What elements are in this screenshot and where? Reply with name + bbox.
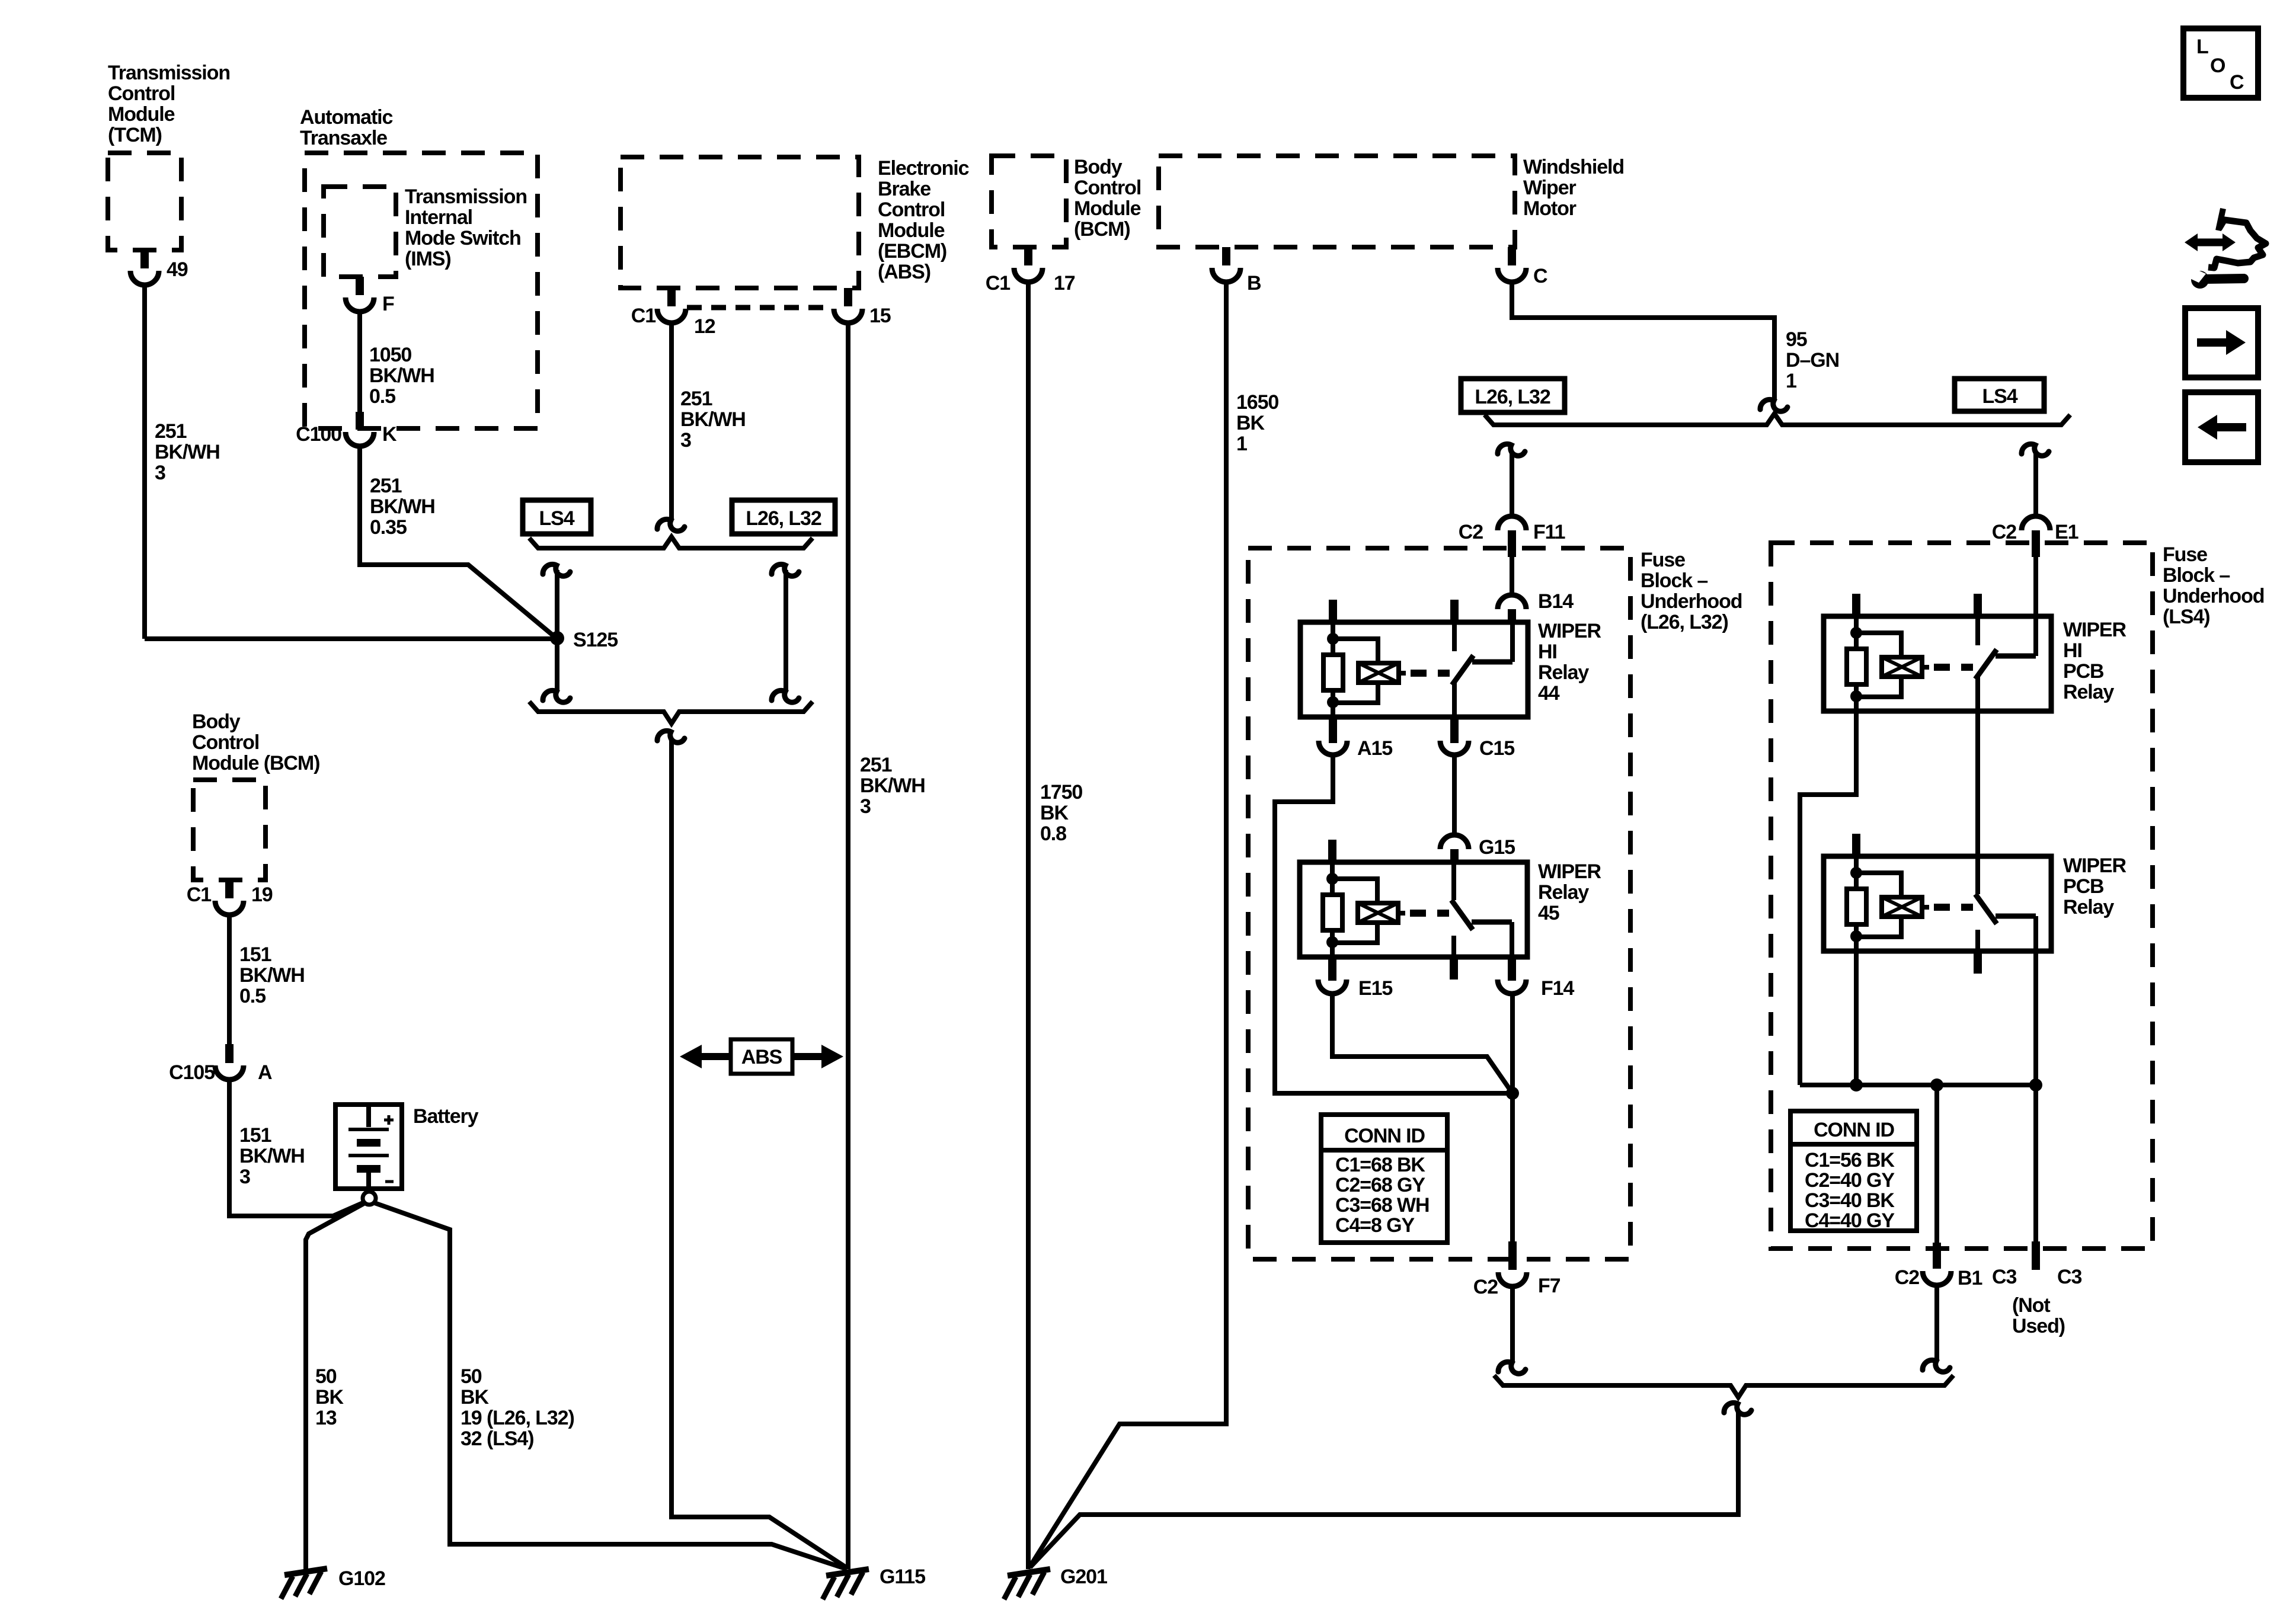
relay NC stub (bottom) [1975,930,1980,951]
svg-text:C4=40 GY: C4=40 GY [1805,1209,1895,1232]
L26,L32 branch curl (bottom) [772,690,799,702]
svg-text:BK: BK [461,1386,489,1409]
wiper relay 45 [1300,862,1527,957]
svg-text:C105: C105 [169,1061,215,1084]
windshield wiper motor dashed box [1159,156,1515,247]
wire E15 to junction [1332,994,1512,1093]
svg-text:Control: Control [878,199,945,221]
option brace LS4 / L26,L32 (top) [529,537,813,548]
svg-text:C1: C1 [986,272,1010,295]
option brace L26,L32 / LS4 [1485,414,2070,425]
svg-text:G15: G15 [1479,836,1515,859]
relay coil feed stub [1852,834,1860,856]
svg-text:LS4: LS4 [1982,385,2017,408]
L26,L32 branch curl [1498,444,1525,456]
L26,L32 branch curl (top) [772,564,799,576]
svg-text:Module: Module [1074,197,1141,220]
svg-text:B1: B1 [1958,1267,1982,1289]
svg-text:C4=8 GY: C4=8 GY [1335,1214,1415,1237]
svg-text:13: 13 [315,1407,337,1429]
wire E1 into wiper hi pcb relay [2033,557,2038,656]
wire F11 to B14 [1510,557,1514,596]
curl above closing brace right [1923,1360,1950,1372]
relay switch arm [1975,894,1997,924]
wiper hi relay 44 [1300,622,1528,717]
relay coil feed stub [1852,594,1860,616]
wire pcb coil return [1854,951,1859,1085]
wire 50 BK 13 to G102 [306,1204,364,1570]
right arrow box icon [2185,308,2258,377]
L26,L32 branch wire [784,570,788,690]
wire hi pcb common to pcb relay [1975,679,1980,894]
svg-text:Mode Switch: Mode Switch [405,227,521,249]
wire F7 down [1510,1286,1515,1362]
relay resistor [1854,633,1859,649]
svg-text:251: 251 [155,420,187,443]
svg-text:0.5: 0.5 [239,985,266,1007]
svg-text:C3=68 WH: C3=68 WH [1335,1194,1429,1217]
svg-text:1650: 1650 [1236,391,1278,414]
svg-text:C2: C2 [1459,521,1483,543]
svg-text:PCB: PCB [2063,875,2104,898]
svg-text:15: 15 [869,305,891,327]
svg-text:0.35: 0.35 [370,516,407,539]
connector C1 pin 15 at EBCM [844,288,852,306]
svg-text:BK/WH: BK/WH [680,408,746,431]
relay coil [1332,879,1377,903]
connector C15 [1450,717,1459,743]
wire to fuse block F11 [1510,452,1514,516]
svg-text:Used): Used) [2012,1315,2065,1337]
svg-text:BK/WH: BK/WH [239,1145,305,1167]
battery minus mark [385,1180,394,1183]
svg-text:(ABS): (ABS) [878,261,930,283]
svg-text:C2: C2 [1895,1266,1919,1289]
svg-text:1: 1 [1786,370,1796,392]
svg-text:Relay: Relay [1538,881,1589,904]
relay resistor [1330,879,1335,895]
wire from TCM to splice S125 [145,636,557,641]
svg-text:C2=68 GY: C2=68 GY [1335,1174,1425,1196]
wire from brace to G201 [1030,1411,1738,1567]
svg-text:Control: Control [1074,177,1141,199]
relay common from top [1975,856,1980,894]
ground G102 [284,1569,327,1575]
fuse block underhood LS4 dashed box [1771,543,2153,1249]
battery plus mark [384,1119,394,1122]
svg-text:F7: F7 [1538,1275,1560,1297]
LS4 branch curl right [2022,444,2049,456]
wire B1 down [1934,1285,1939,1361]
connector 49 at TCM [140,250,149,268]
svg-text:C2: C2 [1473,1276,1498,1298]
svg-text:K: K [382,423,397,446]
connector G15 [1440,835,1469,849]
svg-text:Control: Control [192,731,259,754]
battery [335,1105,402,1189]
curl below closing brace output [1724,1403,1751,1414]
wire 151 BK/WH 0.5 [227,915,232,1044]
relay coil-switch dashed link [1934,664,1973,671]
fuse block underhood L26,L32 dashed box [1248,548,1630,1259]
svg-text:Automatic: Automatic [300,106,393,129]
svg-text:(LS4): (LS4) [2163,606,2210,628]
connector E15 [1328,957,1336,981]
svg-text:0.8: 0.8 [1040,822,1066,845]
svg-text:Block –: Block – [2163,564,2230,587]
svg-text:WIPER: WIPER [1538,620,1601,642]
junction dot F14/E15/A15 [1506,1087,1519,1100]
svg-text:Fuse: Fuse [1641,549,1685,571]
connector C2 F7 [1508,1241,1517,1270]
svg-text:BK/WH: BK/WH [370,495,435,518]
wiper hi pcb relay [1824,616,2051,711]
automatic transaxle dashed box [305,153,538,428]
svg-text:44: 44 [1538,682,1560,705]
relay coil-switch dashed link [1934,904,1973,911]
svg-text:BK/WH: BK/WH [155,441,220,463]
svg-text:CONN ID: CONN ID [1344,1125,1425,1147]
svg-text:C: C [2230,71,2244,94]
svg-text:C1=56 BK: C1=56 BK [1805,1149,1895,1172]
wire 1050 BK/WH 0.5 [357,312,362,412]
svg-text:L: L [2196,36,2208,58]
ground G201 [1008,1569,1050,1576]
svg-text:G201: G201 [1060,1566,1107,1588]
wire 251 BK/WH 3 from EBCM pin 12 [669,323,674,519]
svg-text:C2=40 GY: C2=40 GY [1805,1169,1895,1192]
svg-text:E15: E15 [1358,977,1392,1000]
svg-text:C2: C2 [1992,521,2016,543]
svg-text:Transmission: Transmission [108,62,230,84]
relay coil [1856,633,1901,657]
wire 95 D-GN 1 [1512,282,1774,399]
relay coil [1333,639,1378,663]
relay switch contact [1996,654,2036,659]
CONN ID table LS4 [1790,1111,1917,1231]
svg-text:E1: E1 [2055,521,2078,543]
svg-text:1050: 1050 [369,344,411,366]
splice S125 [550,631,564,645]
svg-text:A: A [258,1061,272,1084]
relay common from top [1451,862,1456,900]
svg-text:Transaxle: Transaxle [300,127,387,149]
wiper pcb relay [1824,856,2051,951]
relay coil [1856,873,1901,897]
svg-text:95: 95 [1786,328,1807,351]
wire B1 drop [1934,1085,1939,1243]
connector C1 pin 17 at BCM [1024,247,1032,265]
svg-text:Module: Module [878,219,945,242]
svg-text:C3=40 BK: C3=40 BK [1805,1189,1895,1212]
relay common wire [1975,677,1980,711]
svg-text:Body: Body [192,710,241,733]
svg-text:G102: G102 [338,1567,385,1590]
relay coil wire [1331,622,1335,639]
svg-text:WIPER: WIPER [2063,619,2126,641]
svg-text:C3: C3 [2057,1266,2081,1288]
connector C at wiper motor [1508,247,1516,265]
svg-text:251: 251 [860,754,892,776]
svg-text:50: 50 [461,1365,482,1388]
svg-text:3: 3 [860,795,871,818]
svg-text:1750: 1750 [1040,781,1082,804]
svg-text:HI: HI [1538,641,1557,663]
wire 50 BK to G115 [375,1203,847,1569]
vehicle communication icon [2194,239,2226,247]
svg-text:(IMS): (IMS) [405,248,451,270]
svg-text:BK: BK [1236,412,1265,434]
svg-text:S125: S125 [573,629,618,651]
wire 251 BK/WH 3 from TCM pin 49 [142,285,147,639]
svg-text:C100: C100 [296,423,341,446]
svg-text:Wiper: Wiper [1523,177,1576,199]
svg-text:Battery: Battery [413,1105,479,1128]
svg-text:F: F [382,293,394,315]
wire C3 stub (not used) [2033,1085,2038,1241]
relay coil-switch dashed link [1411,670,1450,677]
TCM dashed box [108,153,181,250]
svg-text:19: 19 [251,884,273,906]
LS4 option box [523,500,591,534]
svg-text:151: 151 [239,1124,271,1147]
svg-text:D–GN: D–GN [1786,349,1839,372]
svg-text:BK: BK [1040,802,1069,824]
option brace close (bottom) [529,702,813,724]
svg-text:3: 3 [239,1166,250,1188]
relay coil feed stub [1328,840,1336,862]
svg-text:Relay: Relay [2063,896,2114,918]
svg-text:C: C [1533,265,1547,287]
relay coil wire [1854,616,1859,633]
svg-text:151: 151 [239,943,271,966]
ABS continuation symbol [731,1039,792,1074]
CONN ID table L26,L32 [1321,1115,1447,1243]
svg-text:3: 3 [680,429,691,452]
wire to fuse block E1 [2033,452,2038,516]
svg-text:BK/WH: BK/WH [860,774,925,797]
svg-text:Motor: Motor [1523,197,1576,220]
connector F at IMS [356,277,364,295]
connector C2 B1 [1933,1243,1941,1269]
wire pcb contact to junction [2033,916,2038,1085]
svg-text:O: O [2210,55,2225,77]
left arrow box icon [2185,392,2258,462]
junction bus in LS4 fuse block [1800,1083,2036,1087]
svg-text:(TCM): (TCM) [108,124,162,146]
svg-text:Brake: Brake [878,178,930,200]
svg-text:CONN ID: CONN ID [1814,1119,1894,1141]
svg-text:B14: B14 [1538,590,1574,613]
svg-text:BK: BK [315,1386,344,1409]
wire 251 BK/WH 3 from EBCM pin 15 to G115 [846,323,850,1569]
svg-text:(Not: (Not [2012,1294,2050,1317]
LOC box icon [2183,28,2258,98]
svg-text:0.5: 0.5 [369,385,395,408]
wire C15 to G15 [1452,755,1457,836]
relay contact drop [2033,916,2038,951]
relay resistor [1331,639,1335,655]
svg-text:3: 3 [155,462,165,484]
wire hi pcb coil return [1800,711,1856,1085]
relay switch contact [1472,660,1512,665]
svg-text:Underhood: Underhood [1641,590,1742,613]
svg-text:Relay: Relay [2063,681,2114,703]
svg-text:(EBCM): (EBCM) [878,240,946,263]
wire 151 BK/WH 3 to battery [229,1080,363,1216]
L26, L32 option box right [1461,379,1565,412]
svg-text:Internal: Internal [405,206,472,229]
svg-text:Fuse: Fuse [2163,543,2207,566]
svg-text:LS4: LS4 [539,507,574,530]
EBCM dashed box [621,157,859,288]
svg-text:C1: C1 [631,305,655,327]
relay NC stub (top) [1974,594,1982,616]
svg-text:Electronic: Electronic [878,157,969,180]
connector C100 K [356,412,364,430]
relay coil wire [1330,862,1335,879]
svg-text:L26, L32: L26, L32 [746,507,821,530]
svg-text:C15: C15 [1479,737,1514,760]
svg-text:F11: F11 [1533,521,1565,543]
svg-text:ABS: ABS [741,1046,782,1068]
BCM dashed box center [992,156,1066,247]
wire 251 BK/WH 0.35 to S125 [360,446,557,639]
LS4 branch curl (top) [543,564,570,576]
svg-text:17: 17 [1054,272,1075,295]
ground wire to G115 from option brace [671,738,847,1568]
svg-text:HI: HI [2063,639,2082,662]
relay coil-switch dashed link [1410,910,1449,917]
relay switch contact [1472,920,1512,925]
svg-text:Transmission: Transmission [405,185,527,208]
wrench icon [2191,271,2209,289]
LS4 option box right [1955,379,2044,411]
svg-text:45: 45 [1538,902,1559,924]
connector C2 F11 [1498,516,1526,530]
LS4 branch curl (bottom) [543,690,570,702]
connector C1 pin 19 at BCM [225,880,234,898]
svg-text:WIPER: WIPER [1538,860,1601,883]
svg-text:32 (LS4): 32 (LS4) [461,1427,533,1450]
svg-text:B: B [1247,272,1261,295]
relay contact riser [2033,616,2038,656]
relay switch arm [1452,655,1473,685]
relay switch arm [1451,900,1473,930]
wire 1650 BK 1 to G201 [1029,282,1226,1567]
svg-text:251: 251 [680,388,712,410]
svg-text:Module (BCM): Module (BCM) [192,752,319,774]
relay switch arm [1975,649,1997,679]
connector A15 [1329,717,1337,743]
curl above closing brace left [1498,1362,1526,1374]
relay resistor [1854,873,1859,889]
svg-text:PCB: PCB [2063,660,2104,683]
wire 1750 BK 0.8 to G201 [1026,282,1031,1569]
svg-text:50: 50 [315,1365,337,1388]
option brace close (bottom right) [1494,1375,1953,1397]
svg-text:1: 1 [1236,433,1247,455]
svg-text:Body: Body [1074,156,1123,178]
svg-text:49: 49 [167,258,188,281]
ground G115 [826,1569,869,1576]
relay coil feed stub [1329,600,1337,622]
relay contact riser [1510,622,1515,662]
curl below closing brace [657,731,685,742]
L26, L32 option box [732,500,835,534]
wire F14 down [1510,994,1515,1241]
svg-text:F14: F14 [1541,977,1574,1000]
connector F14 [1508,957,1516,981]
svg-text:(BCM): (BCM) [1074,218,1130,241]
connector C1 pin 12 at EBCM [667,288,676,306]
relay switch contact [1996,914,2036,919]
svg-text:C1=68 BK: C1=68 BK [1335,1154,1425,1176]
wire break curl above option brace [657,519,685,531]
svg-text:BK/WH: BK/WH [239,964,305,987]
svg-text:BK/WH: BK/WH [369,364,434,387]
svg-text:Control: Control [108,82,175,105]
svg-text:Module: Module [108,103,175,126]
svg-text:Windshield: Windshield [1523,156,1624,178]
svg-text:C3: C3 [1992,1266,2016,1288]
connector C1 dotted line [687,305,833,311]
IMS dashed box [324,187,396,277]
connector C2 E1 [2022,516,2050,530]
svg-text:A15: A15 [1357,737,1392,760]
connector C105 A [225,1044,234,1063]
svg-text:19 (L26, L32): 19 (L26, L32) [461,1407,574,1429]
relay coil wire [1854,856,1859,873]
svg-text:Relay: Relay [1538,661,1589,684]
connector B14 [1498,595,1526,609]
svg-text:Underhood: Underhood [2163,585,2264,607]
svg-text:G115: G115 [880,1566,925,1588]
svg-text:(L26, L32): (L26, L32) [1641,611,1728,633]
svg-text:Block –: Block – [1641,569,1707,592]
relay common wire [1452,683,1457,717]
svg-text:251: 251 [370,475,402,497]
LS4 branch wire through S125 [555,570,559,690]
battery negative terminal [363,1192,376,1205]
svg-text:L26, L32: L26, L32 [1475,386,1550,408]
connector B at wiper motor [1222,247,1230,265]
wire A15 down-left-down [1275,755,1512,1093]
svg-text:C1: C1 [187,884,211,906]
relay contact drop [1510,922,1514,957]
relay NC stub (top) [1450,600,1459,622]
svg-text:WIPER: WIPER [2063,854,2126,877]
svg-text:12: 12 [694,315,715,338]
curl above option brace (95 D-GN) [1760,399,1787,411]
BCM dashed box left [193,780,266,880]
relay NC stub (bottom) [1451,936,1456,957]
